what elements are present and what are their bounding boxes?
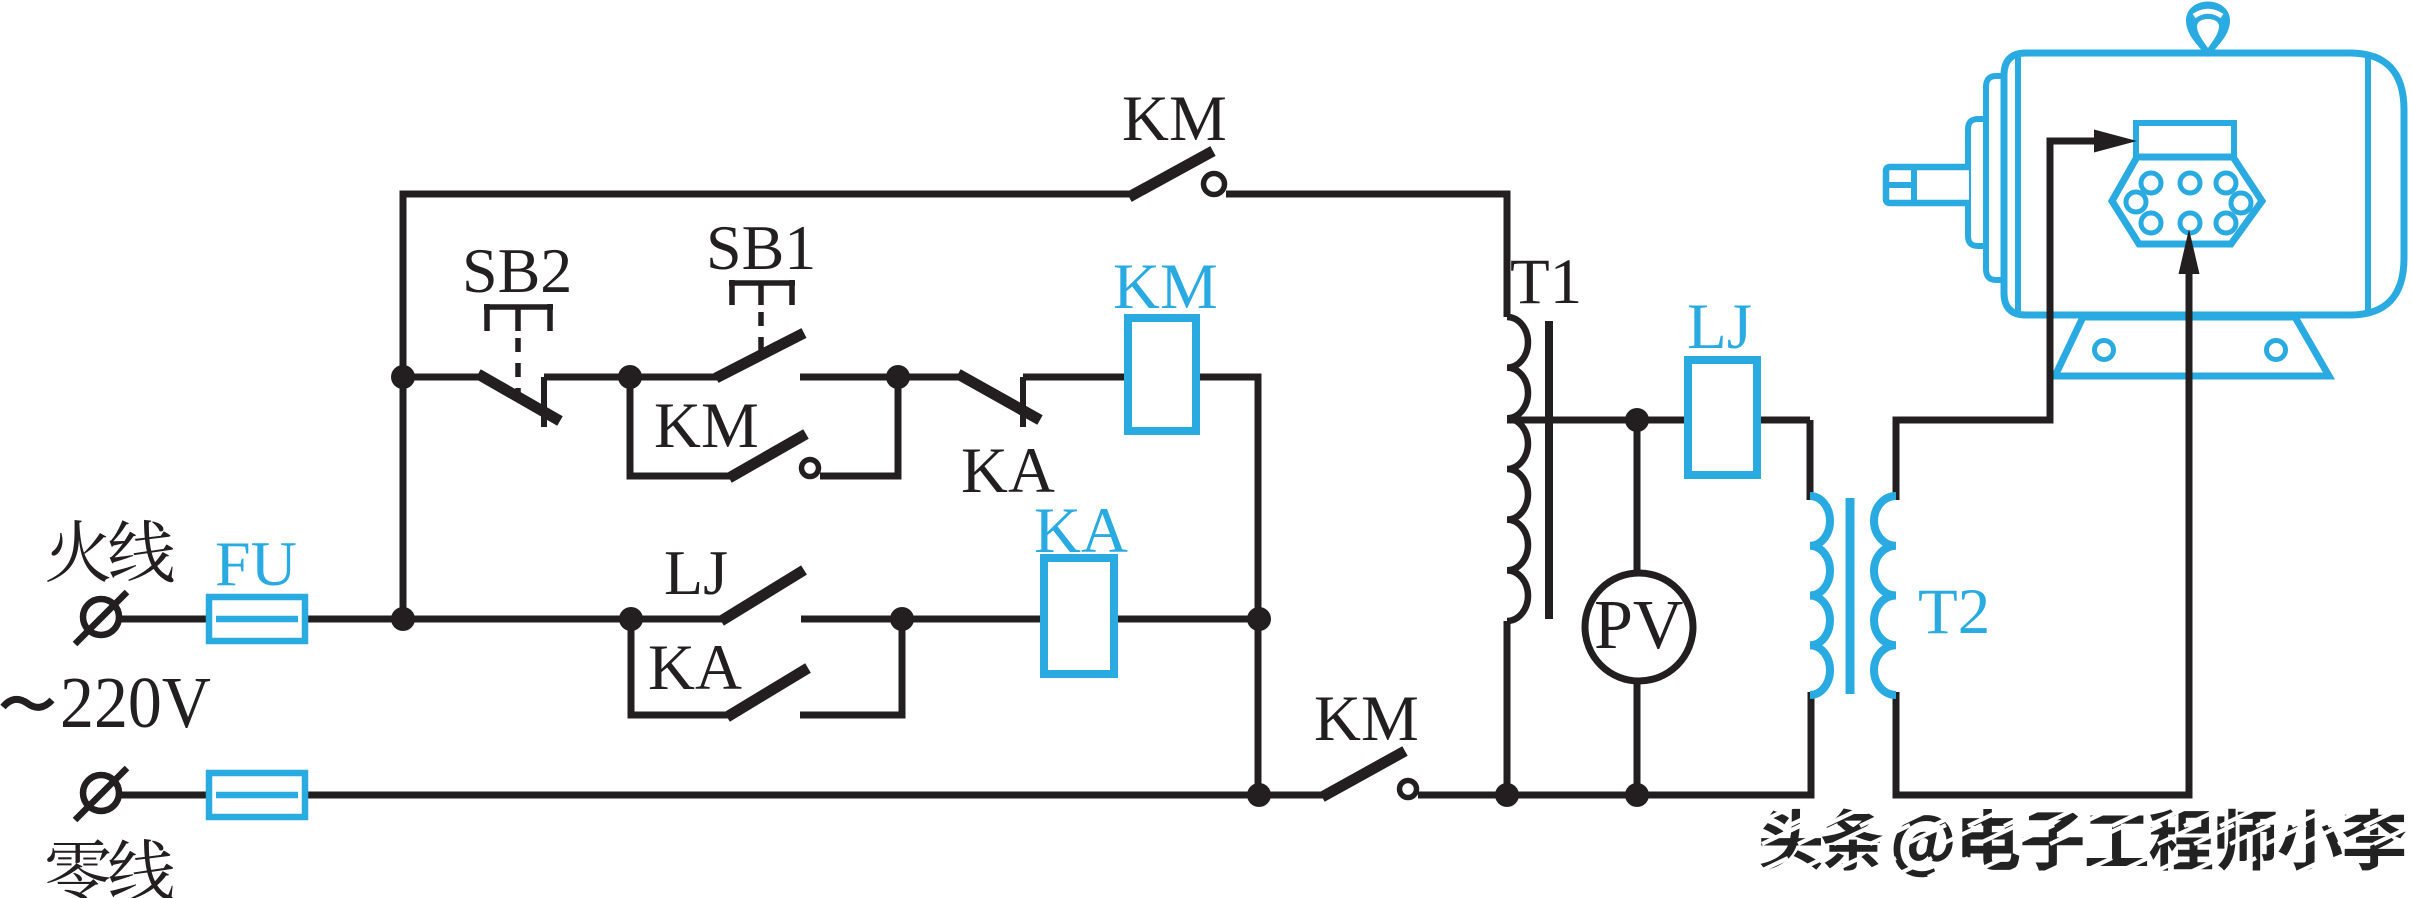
svg-text:SB1: SB1 (706, 212, 816, 283)
svg-text:KM: KM (1122, 83, 1227, 155)
svg-text:T1: T1 (1510, 246, 1582, 318)
svg-text:KM: KM (654, 390, 759, 462)
svg-text:LJ: LJ (1687, 291, 1752, 363)
svg-text:SB2: SB2 (462, 235, 572, 306)
svg-text:T2: T2 (1918, 576, 1990, 648)
svg-text:LJ: LJ (664, 537, 728, 608)
svg-text:KM: KM (1113, 251, 1218, 323)
svg-text:PV: PV (1594, 587, 1683, 664)
svg-text:KM: KM (1314, 683, 1419, 755)
svg-text:KA: KA (648, 632, 742, 704)
svg-text:FU: FU (215, 528, 297, 599)
svg-text:220V: 220V (60, 663, 211, 744)
svg-text:KA: KA (1034, 495, 1128, 567)
